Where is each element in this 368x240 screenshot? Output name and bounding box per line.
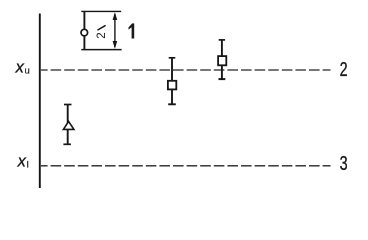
upper control limit dashed line (x_u, line 2) <box>41 69 331 71</box>
data point triangle: error bar <box>67 105 69 145</box>
svg-text:l: l <box>27 160 29 171</box>
square A top cap <box>169 57 176 59</box>
legend label 1 <box>129 23 135 38</box>
legend vertical bar through circle <box>83 11 85 49</box>
svg-text:2: 2 <box>340 58 348 81</box>
square A bottom cap <box>168 103 176 105</box>
square B marker (open) <box>218 56 226 65</box>
svg-text:3: 3 <box>340 152 348 175</box>
triangle error bar bottom cap <box>63 143 71 145</box>
legend circle marker <box>81 29 88 36</box>
legend double-headed arrow shaft <box>114 14 116 47</box>
svg-text:x: x <box>17 152 27 170</box>
svg-text:u: u <box>25 65 30 76</box>
triangle error bar top cap <box>64 104 72 106</box>
square B bottom cap <box>219 78 226 80</box>
label x_l <box>17 152 29 170</box>
legend top tick line <box>81 10 121 12</box>
square A marker (open) <box>168 81 176 90</box>
data point square A (below upper line): error bar <box>171 58 173 105</box>
data point square B (above upper line): error bar <box>221 40 223 79</box>
y-axis line <box>39 14 41 189</box>
square B top cap <box>219 39 225 41</box>
legend rotated label l (italic stroke) <box>98 26 105 30</box>
legend bottom tick line <box>81 49 121 51</box>
legend arrowhead down <box>113 41 118 49</box>
svg-text:2: 2 <box>96 32 108 38</box>
triangle marker (open) <box>63 121 74 129</box>
svg-text:x: x <box>15 58 25 76</box>
label x_u <box>15 58 30 76</box>
legend arrowhead up <box>113 12 118 20</box>
lower control limit dashed line (x_l, line 3) <box>41 165 331 167</box>
